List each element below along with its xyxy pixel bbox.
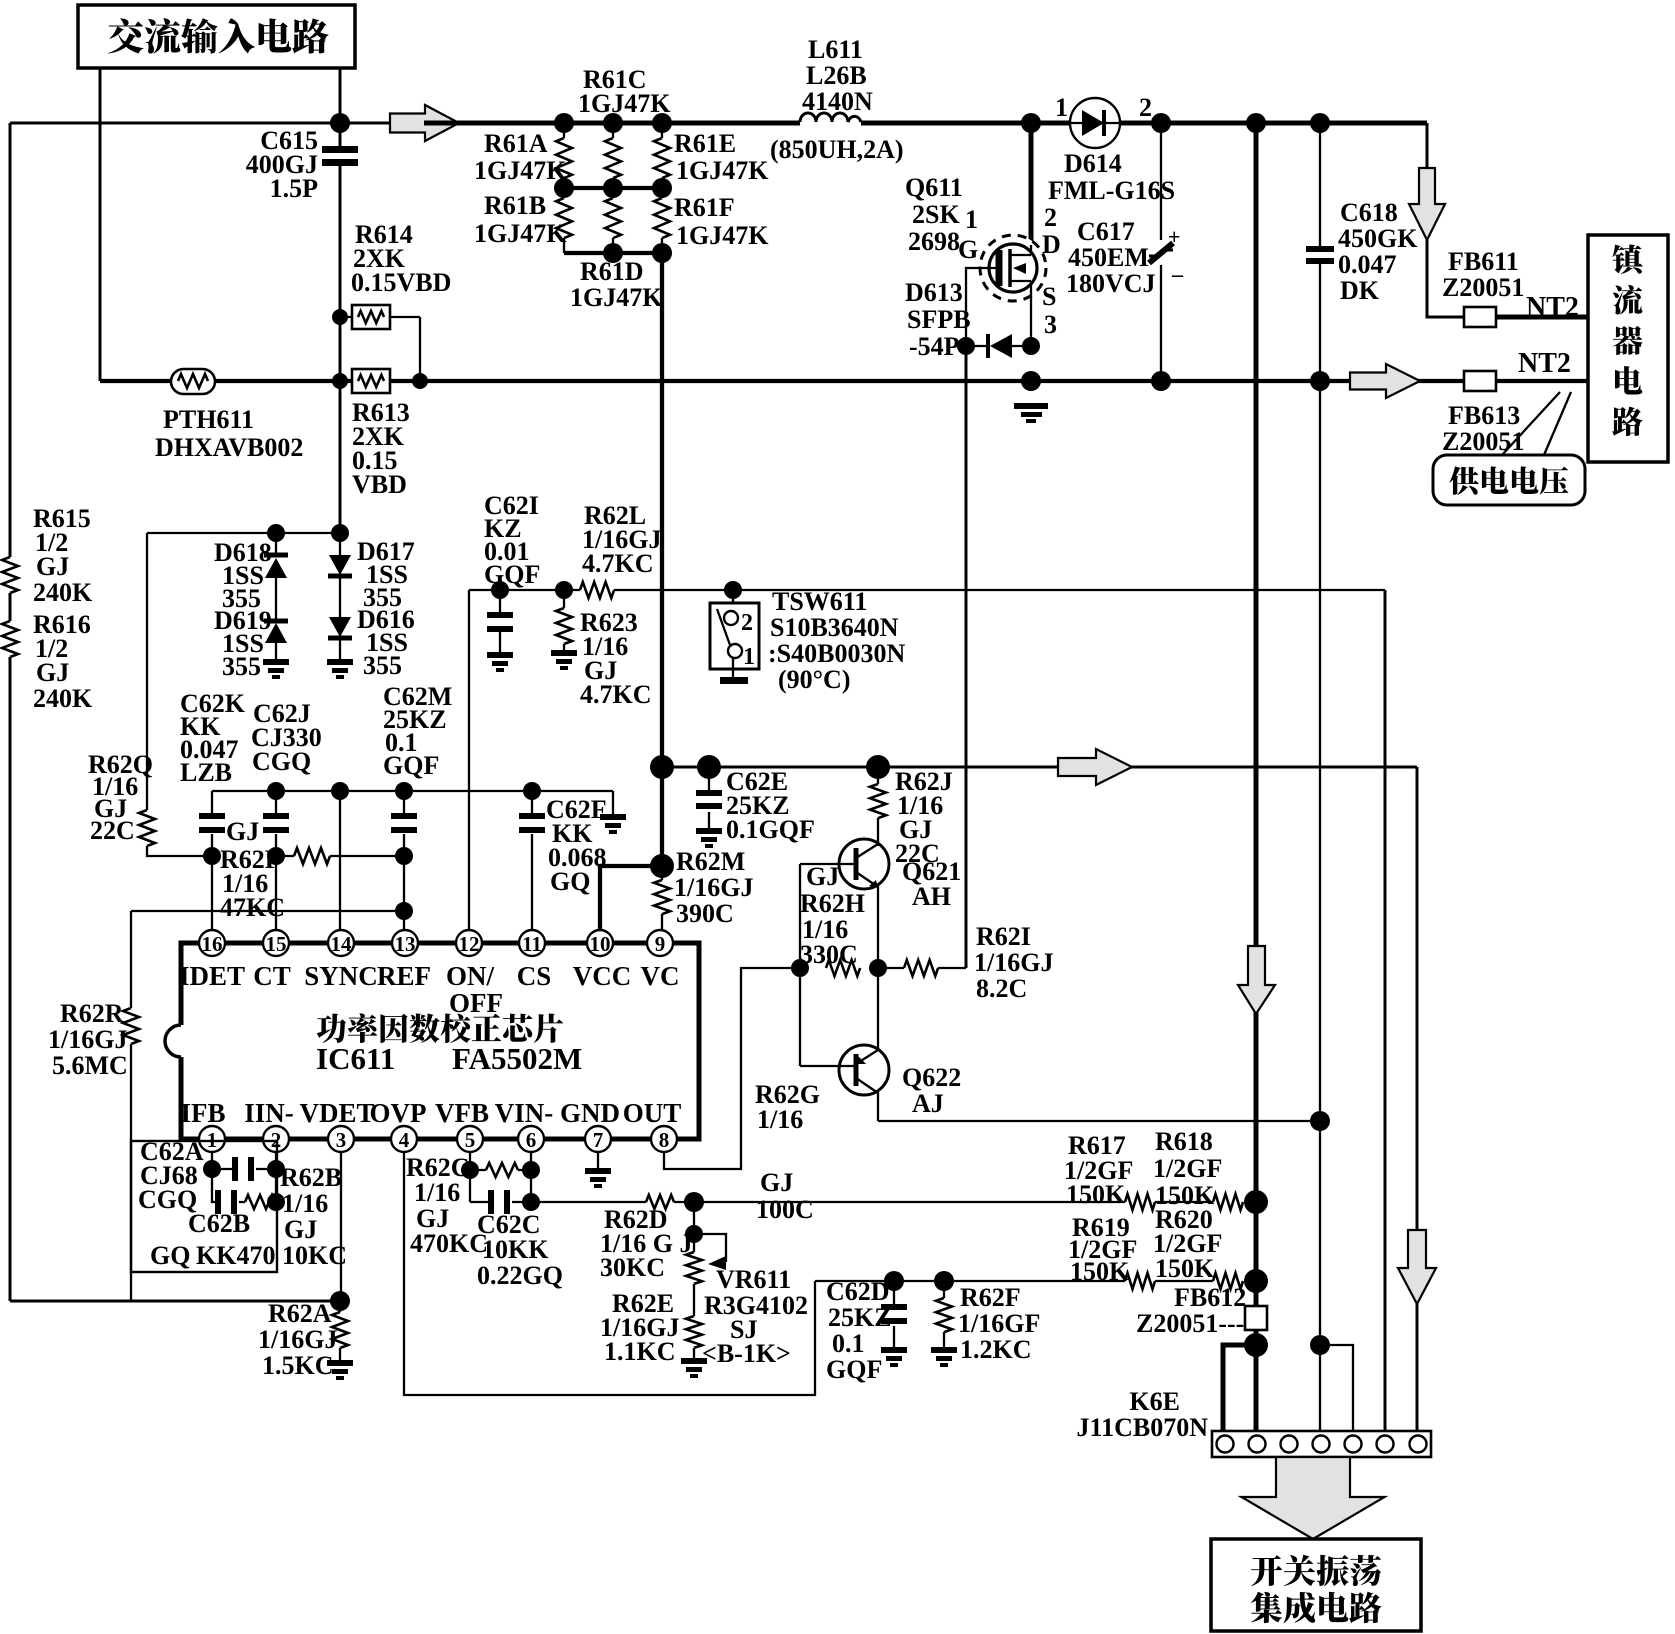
resistor R61B: [556, 198, 572, 238]
arrow signal flow right at AC input: [390, 105, 459, 141]
box C62A C62B group: [131, 1141, 277, 1272]
capacitor C62C: [470, 1201, 531, 1203]
resistor R61A: [556, 138, 572, 178]
svg-text:1.1KC: 1.1KC: [604, 1337, 676, 1366]
svg-text:0.1GQF: 0.1GQF: [726, 815, 815, 844]
svg-text:1.5P: 1.5P: [270, 174, 319, 203]
wire C62I/R62L line y=590 with TSW branch: [469, 589, 1385, 591]
svg-text:330C: 330C: [800, 940, 858, 969]
svg-text:390C: 390C: [676, 899, 734, 928]
svg-text:FB611: FB611: [1448, 247, 1519, 276]
svg-text:DK: DK: [1340, 276, 1380, 305]
wire AC box right lead down to node: [339, 68, 342, 123]
svg-text:G: G: [958, 235, 978, 264]
svg-text:GQ: GQ: [150, 1241, 190, 1270]
capacitor C62B and resistor R62B series: [212, 1169, 245, 1202]
svg-text:180VCJ: 180VCJ: [1066, 269, 1156, 298]
wire R61 bottom bus: [564, 251, 662, 255]
svg-text:CGQ: CGQ: [252, 747, 311, 776]
svg-text:VBD: VBD: [352, 470, 407, 499]
wire main HV rail x=1256: [1254, 123, 1259, 1306]
resistor R62Q: [139, 810, 155, 846]
capacitor C618: [1319, 123, 1321, 1431]
svg-text:VCC: VCC: [573, 961, 632, 991]
svg-text:15: 15: [266, 932, 287, 956]
wire pin1 column: [211, 1151, 213, 1169]
wire pin15 column: [275, 856, 277, 931]
svg-text:1/2GF: 1/2GF: [1153, 1154, 1222, 1183]
svg-text:R61F: R61F: [674, 193, 735, 222]
node pin4 branch: [1310, 1335, 1330, 1355]
node main input junction: [330, 113, 350, 133]
svg-text:1GJ47K: 1GJ47K: [676, 221, 769, 250]
svg-text:IFB: IFB: [180, 1098, 225, 1128]
wire feedback line y=1202: [531, 1201, 1213, 1203]
resistor R61D: [605, 198, 621, 238]
inductor L611: [800, 113, 861, 122]
wire capacitor bus y=791: [212, 790, 613, 792]
resistor R62P: [276, 855, 404, 857]
pin 13 REF: [392, 930, 418, 956]
wire pin6 column: [530, 1151, 532, 1202]
box ballast circuit 镇流器电路: [1588, 235, 1668, 462]
wire D617/D618 top line y=533: [147, 532, 340, 534]
capacitor C62D: [893, 1281, 895, 1347]
svg-text:S10B3640N: S10B3640N: [770, 613, 899, 642]
ground C62I: [487, 652, 513, 672]
pin 3 VDET: [328, 1126, 354, 1152]
svg-text:(850UH,2A): (850UH,2A): [770, 135, 904, 164]
svg-text:0.15VBD: 0.15VBD: [351, 268, 451, 297]
wire pin5 column: [469, 1151, 471, 1202]
svg-text:R618: R618: [1155, 1127, 1213, 1156]
svg-text:1/16: 1/16: [757, 1105, 803, 1134]
svg-text:-54P: -54P: [909, 332, 960, 361]
wire R61 network stubs: [564, 123, 662, 138]
wire bottom-left horizontal to R62A node: [10, 1300, 340, 1303]
wire pin10 VCC elbow: [600, 866, 662, 931]
pin 12 ON: [456, 930, 482, 956]
svg-text:150K: 150K: [1070, 1257, 1130, 1286]
switch TSW611 thermal: [732, 590, 734, 603]
pin 16 IDET: [199, 930, 225, 956]
diode D617: [339, 533, 341, 659]
svg-text:L611: L611: [808, 35, 863, 64]
wire R61D column down to VCC node: [660, 253, 664, 767]
wire R61 middle bus: [564, 186, 662, 190]
svg-text:D613: D613: [905, 278, 963, 307]
pin 15 CT: [263, 930, 289, 956]
pin 6 VIN-: [518, 1126, 544, 1152]
pin 5 VFB: [457, 1126, 483, 1152]
svg-text:AH: AH: [912, 882, 951, 911]
wire thick top bus y=123: [340, 122, 390, 125]
svg-text:FML-G16S: FML-G16S: [1048, 176, 1175, 205]
resistor R617: [1125, 1194, 1155, 1210]
arrow down above connector pin7: [1398, 1230, 1436, 1304]
svg-text:NT2: NT2: [1518, 348, 1571, 379]
ground D616: [327, 659, 353, 679]
pin 11 CS: [519, 930, 545, 956]
wire pin13 column and node line y=911: [131, 856, 404, 931]
resistor R619: [1125, 1273, 1155, 1289]
resistor R62M: [661, 866, 663, 931]
wire pin2 column: [275, 1151, 277, 1202]
capacitor C62F: [531, 791, 533, 931]
svg-text:6: 6: [526, 1128, 537, 1152]
svg-text:(90°C): (90°C): [778, 665, 851, 694]
svg-text:GQF: GQF: [484, 560, 540, 589]
svg-text:R62A: R62A: [268, 1299, 332, 1328]
svg-text:TSW611: TSW611: [772, 587, 867, 616]
fuse FB612: [1245, 1306, 1267, 1330]
svg-text:ON/: ON/: [446, 961, 495, 991]
transistor Q621: [839, 839, 889, 889]
svg-text:355: 355: [363, 651, 402, 680]
wire left rail top horizontal: [10, 122, 340, 125]
node FB612 bottom: [1244, 1333, 1268, 1357]
wire D613 cathode line down: [965, 346, 968, 968]
svg-text:2SK: 2SK: [912, 200, 960, 229]
pin 9 VC: [647, 930, 673, 956]
svg-text:9: 9: [655, 932, 666, 956]
svg-text:1.2KC: 1.2KC: [960, 1335, 1032, 1364]
svg-text:3: 3: [336, 1128, 347, 1152]
svg-text:1GJ47K: 1GJ47K: [474, 156, 567, 185]
pin 1 IFB: [199, 1126, 225, 1152]
resistor R62A: [339, 1301, 341, 1360]
wire branch to connector pin5: [1320, 1345, 1353, 1431]
svg-text:FB612: FB612: [1174, 1283, 1246, 1312]
diode D618: [275, 533, 277, 659]
svg-text:Q622: Q622: [902, 1063, 961, 1092]
svg-text:C617: C617: [1077, 217, 1135, 246]
svg-text:VIN-: VIN-: [495, 1098, 554, 1128]
svg-text:150K: 150K: [1066, 1180, 1126, 1209]
svg-text:FB613: FB613: [1448, 401, 1520, 430]
svg-text:R61A: R61A: [484, 129, 548, 158]
capacitor C62E: [708, 767, 710, 828]
svg-text:1/16GJ: 1/16GJ: [258, 1325, 337, 1354]
resistor R614 boxed: [340, 317, 420, 381]
svg-text:Z20051---: Z20051---: [1136, 1309, 1244, 1338]
resistor R62J: [877, 767, 879, 842]
svg-text:K6E: K6E: [1129, 1387, 1180, 1416]
wire Q611 gate lead: [966, 268, 999, 346]
svg-text:2698: 2698: [908, 227, 960, 256]
capacitor C615: [322, 146, 358, 166]
wire pin14 column: [339, 791, 341, 931]
resistor R618: [1213, 1194, 1243, 1210]
thermistor PTH611: [171, 369, 215, 394]
svg-text:450GK: 450GK: [1338, 224, 1418, 253]
svg-text:10: 10: [590, 932, 611, 956]
diode D616: [329, 617, 351, 637]
svg-text:R62B: R62B: [280, 1163, 342, 1192]
svg-text:16: 16: [202, 932, 223, 956]
wire VCC node line y=767 to right: [662, 766, 1417, 769]
resistor R623: [563, 590, 565, 650]
box switching oscillator IC 开关振荡集成电路: [1211, 1539, 1421, 1631]
node Q621 emitter junction: [869, 959, 887, 977]
node Q611 source on return line: [1021, 371, 1041, 391]
svg-text:1.5KC: 1.5KC: [262, 1351, 334, 1380]
svg-text:R61E: R61E: [674, 129, 736, 158]
svg-text:IDET: IDET: [179, 961, 245, 991]
connector K6E J11CB070N: [1212, 1431, 1431, 1457]
svg-text:GQ: GQ: [550, 867, 590, 896]
svg-text:25KZ: 25KZ: [828, 1303, 892, 1332]
capacitor C62I: [499, 590, 501, 652]
wire Q622 emitter to pin4 column: [878, 1120, 1320, 1122]
capacitor C617 electrolytic: [1160, 123, 1162, 381]
svg-text:GJ: GJ: [284, 1215, 317, 1244]
svg-text:SFPB: SFPB: [907, 305, 971, 334]
svg-text:7: 7: [593, 1128, 604, 1152]
resistor R61C: [605, 138, 621, 178]
svg-text:355: 355: [222, 652, 261, 681]
svg-text:CS: CS: [517, 961, 552, 991]
wire R619 line y=1281: [815, 1280, 1213, 1282]
svg-text:0.1: 0.1: [832, 1329, 865, 1358]
svg-text:5: 5: [465, 1128, 476, 1152]
svg-text:R62F: R62F: [960, 1283, 1021, 1312]
IC title 功率因数校正芯片: [317, 1013, 347, 1042]
resistor R61E: [654, 138, 670, 178]
svg-text:DHXAVB002: DHXAVB002: [155, 433, 303, 462]
svg-text:1GJ47K: 1GJ47K: [676, 156, 769, 185]
svg-text:22C: 22C: [90, 816, 135, 845]
capacitor C62A: [212, 1168, 276, 1170]
svg-text:J11CB070N: J11CB070N: [1077, 1413, 1209, 1442]
svg-text:C62B: C62B: [188, 1209, 250, 1238]
svg-text:240K: 240K: [33, 684, 93, 713]
svg-text:14: 14: [331, 932, 353, 956]
fuse FB613: [1464, 371, 1496, 391]
svg-text:5.6MC: 5.6MC: [52, 1051, 128, 1080]
svg-text:0.047: 0.047: [1338, 250, 1397, 279]
svg-text:GND: GND: [560, 1098, 620, 1128]
svg-text:1/16: 1/16: [282, 1189, 328, 1218]
svg-text:C618: C618: [1340, 198, 1398, 227]
svg-text:11: 11: [522, 932, 542, 956]
svg-text:2: 2: [1044, 203, 1057, 232]
ground Q611 source: [1014, 403, 1048, 423]
svg-text:R61B: R61B: [484, 191, 546, 220]
svg-text:VDET: VDET: [299, 1098, 374, 1128]
svg-text:VFB: VFB: [435, 1098, 489, 1128]
wire AC box left lead down to neutral line: [99, 68, 102, 381]
svg-text:8.2C: 8.2C: [976, 974, 1027, 1003]
svg-text:2: 2: [741, 610, 753, 636]
svg-text:1/16GJ: 1/16GJ: [674, 873, 753, 902]
pin 2 IIN-: [263, 1126, 289, 1152]
svg-text:1/16: 1/16: [414, 1178, 460, 1207]
resistor R61F: [654, 198, 670, 238]
resistor R62I: [878, 967, 966, 969]
wire R62Q column: [147, 533, 212, 856]
wire left rail vertical: [9, 123, 12, 1301]
svg-text:GQF: GQF: [826, 1355, 882, 1384]
svg-text:1GJ47K: 1GJ47K: [474, 219, 567, 248]
svg-text:GJ: GJ: [760, 1168, 793, 1197]
svg-text:IC611: IC611: [316, 1041, 395, 1076]
svg-text:REF: REF: [377, 961, 431, 991]
pin 7 GND: [585, 1126, 611, 1152]
resistor R62C: [470, 1169, 531, 1171]
box AC input circuit 交流输入电路: [78, 5, 355, 68]
svg-text:GJ: GJ: [36, 552, 69, 581]
resistor R620: [1213, 1273, 1243, 1289]
svg-text:12: 12: [459, 932, 480, 956]
arrow right on VCC line: [1058, 749, 1132, 785]
svg-text:1GJ47K: 1GJ47K: [578, 89, 671, 118]
svg-text:0.22GQ: 0.22GQ: [477, 1261, 563, 1290]
svg-text:1/16GF: 1/16GF: [958, 1309, 1040, 1338]
svg-text:450EM: 450EM: [1068, 243, 1149, 272]
resistor R615: [2, 557, 18, 593]
svg-text:VC: VC: [641, 961, 680, 991]
svg-text:1/16GJ: 1/16GJ: [48, 1025, 127, 1054]
svg-text:1: 1: [965, 205, 978, 234]
svg-text:R62I: R62I: [976, 922, 1031, 951]
svg-text:4.7KC: 4.7KC: [580, 680, 652, 709]
pin 14 SYNC: [328, 930, 354, 956]
wire TSW line to connector pin6: [1384, 590, 1387, 1431]
svg-text:OVP: OVP: [370, 1098, 427, 1128]
svg-text:R62R: R62R: [60, 999, 124, 1028]
wire pin3 VDET column down: [340, 1151, 342, 1301]
svg-text:100C: 100C: [756, 1195, 814, 1224]
wire base column Q621-Q622: [799, 864, 801, 1066]
transistor Q622: [839, 1045, 889, 1095]
svg-text:GJ: GJ: [36, 658, 69, 687]
wire x=662 down to R62M node: [660, 767, 664, 866]
svg-text:GQF: GQF: [383, 751, 439, 780]
ground bus right end: [612, 791, 614, 814]
svg-text:SYNC: SYNC: [304, 961, 378, 991]
svg-text:CT: CT: [253, 961, 291, 991]
svg-text:4: 4: [399, 1128, 410, 1152]
potentiometer VR611: [693, 1202, 695, 1252]
IC IC611 FA5502M body: [181, 943, 699, 1139]
arrow right to FB613: [1350, 364, 1420, 398]
wire branch to connector pin1: [1223, 1345, 1256, 1431]
svg-text:OFF: OFF: [449, 988, 503, 1018]
diode D613: [957, 337, 975, 355]
resistor R62D: [646, 1195, 674, 1209]
arrow down to FB611: [1427, 123, 1588, 317]
svg-text:R62M: R62M: [676, 847, 745, 876]
resistor R62L: [580, 582, 614, 598]
svg-text:_: _: [1171, 254, 1184, 279]
svg-text:1: 1: [1055, 93, 1068, 122]
svg-text:Z20051: Z20051: [1442, 273, 1524, 302]
svg-text:OUT: OUT: [623, 1098, 682, 1128]
svg-text:150K: 150K: [1155, 1254, 1215, 1283]
svg-text:10KC: 10KC: [282, 1241, 347, 1270]
ground R623: [551, 650, 577, 670]
capacitor C62K: [211, 791, 213, 856]
svg-text:NT2: NT2: [1526, 292, 1579, 323]
svg-text:+: +: [1168, 224, 1181, 249]
resistor R613 boxed: [352, 369, 390, 393]
svg-text:Z20051: Z20051: [1442, 427, 1524, 456]
wire OUT pin8 to base network: [664, 968, 800, 1169]
svg-text:8: 8: [659, 1128, 670, 1152]
svg-text:3: 3: [1044, 310, 1057, 339]
callout supply voltage 供电电压: [1433, 455, 1585, 505]
svg-text:1GJ47K: 1GJ47K: [570, 283, 663, 312]
svg-text:D: D: [1042, 230, 1061, 259]
svg-text:C62D: C62D: [826, 1277, 890, 1306]
svg-text:240K: 240K: [33, 578, 93, 607]
fuse FB611: [1464, 307, 1496, 327]
svg-text:LZB: LZB: [180, 758, 232, 787]
svg-text:13: 13: [395, 932, 416, 956]
svg-text:L26B: L26B: [806, 61, 867, 90]
svg-text::S40B0030N: :S40B0030N: [768, 639, 905, 668]
svg-text:1/16GJ: 1/16GJ: [974, 948, 1053, 977]
svg-text:10KK: 10KK: [482, 1235, 549, 1264]
pin 8 OUT: [651, 1126, 677, 1152]
resistor R62F: [943, 1281, 945, 1347]
svg-text:R62H: R62H: [800, 889, 865, 918]
svg-text:AJ: AJ: [912, 1089, 944, 1118]
arrow big down to oscillator box: [1242, 1457, 1385, 1539]
svg-text:<B-1K>: <B-1K>: [702, 1339, 791, 1368]
wire pin16 column: [211, 856, 213, 931]
diode D614 in circle: [1021, 113, 1041, 133]
svg-text:GJ: GJ: [806, 862, 839, 891]
node R61C top: [554, 113, 574, 133]
svg-text:4.7KC: 4.7KC: [582, 549, 654, 578]
svg-text:KK470: KK470: [196, 1241, 275, 1270]
svg-text:30KC: 30KC: [600, 1253, 665, 1282]
svg-text:FA5502M: FA5502M: [452, 1041, 582, 1076]
svg-text:D614: D614: [1064, 149, 1122, 178]
svg-text:IIN-: IIN-: [244, 1098, 294, 1128]
node R62A junction: [330, 1291, 350, 1311]
wire neutral line y=381: [100, 379, 352, 383]
pin 4 OVP: [391, 1126, 417, 1152]
svg-text:R61D: R61D: [580, 257, 644, 286]
ground pin7 GND: [597, 1151, 599, 1168]
arrow down on HV rail: [1238, 946, 1275, 1014]
capacitor C62M: [403, 791, 405, 856]
resistor R616: [2, 621, 18, 657]
svg-text:VR611: VR611: [716, 1265, 791, 1294]
ground D619: [263, 659, 289, 679]
wire pin4 OVP loop: [404, 1151, 815, 1395]
svg-text:GJ: GJ: [226, 817, 259, 846]
resistor R62R: [130, 911, 132, 1301]
svg-text:4140N: 4140N: [802, 87, 873, 116]
svg-text:47KC: 47KC: [220, 893, 285, 922]
capacitor C62J: [275, 791, 277, 856]
svg-text:2: 2: [1139, 93, 1152, 122]
svg-text:PTH611: PTH611: [163, 405, 254, 434]
svg-text:Q611: Q611: [905, 173, 963, 202]
ground C62E: [696, 828, 722, 848]
wire VCC line corner down to connector pin7: [1416, 767, 1419, 1431]
transistor Q611 MOSFET: [1029, 123, 1034, 245]
svg-text:1: 1: [743, 644, 755, 670]
resistor R62E: [686, 1316, 702, 1348]
wire pin12 column from C62I line: [468, 590, 470, 931]
pin 10 VCC: [587, 930, 613, 956]
svg-text:S: S: [1042, 282, 1056, 311]
